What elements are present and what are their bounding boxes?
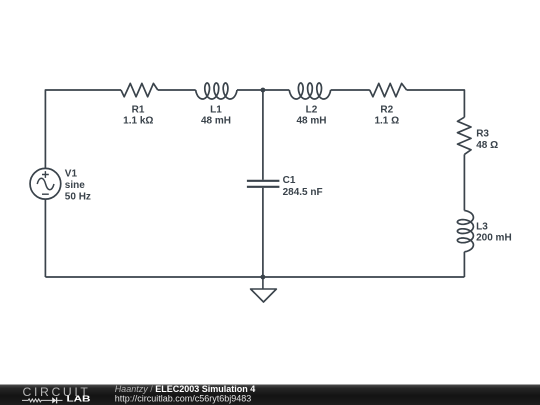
ground bbox=[251, 277, 277, 302]
svg-text:1.1 kΩ: 1.1 kΩ bbox=[123, 116, 153, 127]
svg-text:R3: R3 bbox=[476, 129, 489, 140]
wire L2 to R2 bbox=[331, 89, 370, 91]
wire V1 bottom bbox=[44, 199, 46, 277]
svg-text:48 mH: 48 mH bbox=[201, 116, 231, 127]
label V1 sine 50 Hz bbox=[65, 169, 91, 203]
label R3 48 Ohm bbox=[476, 129, 498, 151]
svg-text:http://circuitlab.com/c56ryt6b: http://circuitlab.com/c56ryt6bj9483 bbox=[115, 394, 252, 404]
wire L1 to node A bbox=[237, 89, 263, 91]
svg-text:R1: R1 bbox=[132, 104, 145, 115]
svg-text:48 mH: 48 mH bbox=[296, 116, 326, 127]
node B junction dot bbox=[261, 275, 266, 280]
svg-text:L3: L3 bbox=[476, 221, 488, 232]
wire R3 to L3 bbox=[463, 154, 465, 210]
label C1 284.5 nF bbox=[283, 175, 323, 198]
svg-text:48 Ω: 48 Ω bbox=[476, 140, 498, 151]
wire node A to L2 bbox=[263, 89, 289, 91]
svg-text:V1: V1 bbox=[65, 169, 78, 180]
label R2 1.1 Ohm bbox=[374, 104, 399, 126]
wire L3 to bottom rail bbox=[463, 252, 465, 277]
wire node A to C1 bbox=[262, 90, 264, 180]
resistor R1 bbox=[121, 83, 158, 96]
svg-text:L1: L1 bbox=[210, 104, 222, 115]
wire R2 to R3 bbox=[407, 90, 465, 117]
resistor R3 bbox=[458, 117, 472, 154]
label L1 48 mH bbox=[201, 104, 231, 126]
wire V1 top to R1 bbox=[45, 90, 121, 168]
inductor L2 bbox=[289, 83, 330, 99]
svg-text:284.5 nF: 284.5 nF bbox=[283, 187, 323, 198]
svg-text:R2: R2 bbox=[380, 104, 393, 115]
label L2 48 mH bbox=[296, 104, 326, 126]
CircuitLab logo bbox=[22, 385, 91, 404]
svg-text:C1: C1 bbox=[283, 175, 296, 186]
wire C1 to bottom rail bbox=[262, 188, 264, 277]
label R1 1.1 kOhm bbox=[123, 104, 153, 126]
inductor L3 bbox=[457, 211, 473, 252]
svg-text:L2: L2 bbox=[306, 104, 318, 115]
inductor L1 bbox=[196, 83, 237, 99]
footer bar bbox=[0, 385, 540, 405]
svg-text:1.1 Ω: 1.1 Ω bbox=[374, 116, 399, 127]
node A junction dot bbox=[261, 88, 266, 93]
wire R1 to L1 bbox=[158, 89, 196, 91]
svg-text:sine: sine bbox=[65, 180, 85, 191]
capacitor C1 bbox=[247, 181, 280, 187]
voltage source V1 bbox=[30, 168, 61, 199]
resistor R2 bbox=[370, 83, 407, 96]
svg-text:200 mH: 200 mH bbox=[476, 233, 512, 244]
label L3 200 mH bbox=[476, 221, 512, 243]
svg-text:50 Hz: 50 Hz bbox=[65, 191, 91, 202]
wire bottom rail bbox=[45, 276, 464, 278]
svg-text:LAB: LAB bbox=[67, 395, 91, 404]
